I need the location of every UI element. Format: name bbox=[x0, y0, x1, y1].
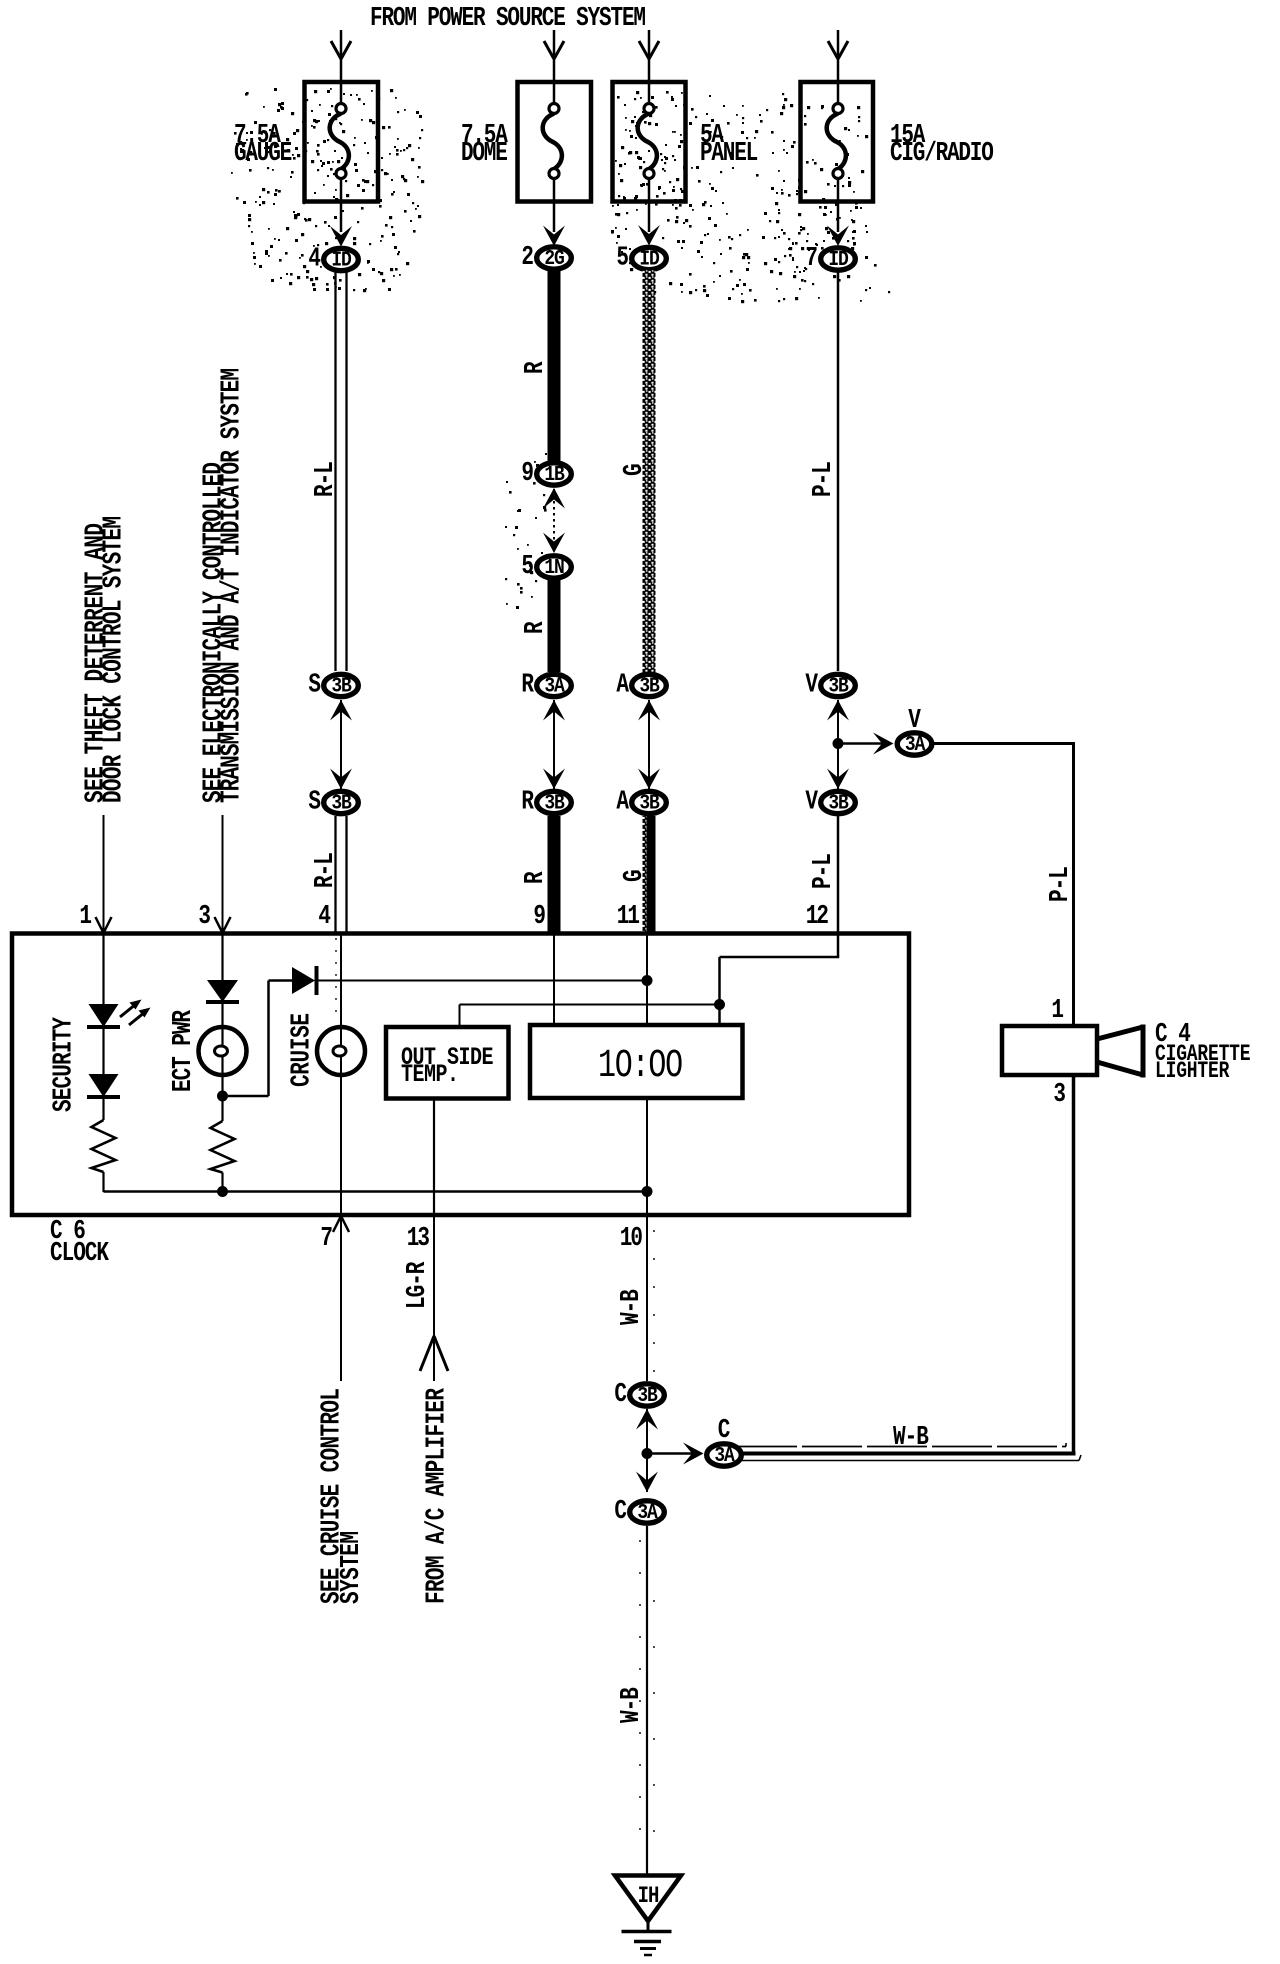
connector R 3B col2 bbox=[521, 787, 571, 817]
pin 4 label bbox=[318, 902, 331, 932]
label R upper bbox=[521, 361, 551, 374]
svg-text:CRUISE: CRUISE bbox=[287, 1013, 317, 1087]
resistor ECT R2 bbox=[211, 1121, 235, 1173]
diode security D2 bbox=[87, 1074, 120, 1097]
pin 3 label lighter bbox=[1053, 1080, 1066, 1110]
svg-text:R: R bbox=[521, 871, 551, 884]
pin 11 label bbox=[617, 902, 640, 932]
label C above 3A bbox=[718, 1416, 731, 1446]
svg-text:5: 5 bbox=[521, 552, 533, 582]
wire branch to C 3A bbox=[647, 1443, 704, 1465]
svg-text:3B: 3B bbox=[639, 790, 659, 815]
wire R thick middle bbox=[548, 580, 561, 672]
label 7.5A DOME bbox=[461, 121, 508, 169]
wire feed to fuse DOME bbox=[544, 30, 564, 82]
connector 7 1D bbox=[805, 244, 855, 274]
connector C 3A branch bbox=[707, 1442, 742, 1467]
connector 5 1D bbox=[616, 243, 666, 273]
ground IH triangle bbox=[615, 1876, 681, 1922]
svg-text:R-L: R-L bbox=[311, 853, 341, 888]
svg-text:4: 4 bbox=[308, 244, 320, 274]
label W-B pin10 bbox=[617, 1290, 647, 1325]
svg-text:R: R bbox=[521, 621, 551, 634]
junction arrows col2 bbox=[543, 700, 565, 789]
wire lamp to junction bbox=[221, 1075, 223, 1096]
svg-text:ID: ID bbox=[828, 246, 848, 271]
svg-text:IH: IH bbox=[638, 1885, 659, 1910]
connector V 3A branch bbox=[897, 731, 932, 756]
junction dot bottom bbox=[642, 1448, 653, 1459]
pin 3 label bbox=[198, 902, 211, 932]
junction dot col4 bbox=[833, 738, 844, 749]
label 15A CIG/RADIO bbox=[890, 121, 993, 169]
wire ECT junction to resistor bbox=[221, 1096, 223, 1121]
label C 4 CIGARETTE LIGHTER bbox=[1155, 1020, 1250, 1085]
connector C 3A lower bbox=[614, 1497, 664, 1527]
svg-text:PANEL: PANEL bbox=[700, 139, 758, 169]
wire branch to V 3A bbox=[838, 733, 894, 755]
label SEE ELECTRONICALLY CONTROLLED bbox=[199, 368, 247, 803]
svg-text:R-L: R-L bbox=[311, 462, 341, 497]
lamp CRUISE bbox=[317, 1027, 365, 1075]
node FROM POWER SOURCE SYSTEM label bbox=[370, 4, 646, 34]
svg-text:CLOCK: CLOCK bbox=[50, 1239, 110, 1269]
wire cruise diode to pin11 node bbox=[318, 980, 647, 982]
wire W-B to right rail bbox=[737, 1075, 1081, 1461]
junction arrows 1B to 1N bbox=[543, 488, 565, 553]
wire C3A to ground bbox=[640, 1526, 654, 1877]
diode ECT D3 bbox=[206, 980, 239, 1002]
svg-text:3A: 3A bbox=[637, 1499, 657, 1524]
svg-text:G: G bbox=[620, 463, 650, 476]
wire R2 to bus bbox=[221, 1173, 223, 1193]
svg-text:R: R bbox=[521, 361, 551, 374]
svg-text:9: 9 bbox=[533, 902, 546, 932]
svg-text:9: 9 bbox=[521, 459, 532, 489]
wire outside temp to pin13 bbox=[433, 1098, 435, 1214]
label R lower bbox=[521, 871, 551, 884]
svg-text:3B: 3B bbox=[639, 673, 659, 698]
cigarette lighter C4 body bbox=[1002, 1025, 1143, 1078]
fuse 5A PANEL bbox=[613, 82, 686, 202]
fuse 7.5A GAUGE bbox=[305, 82, 379, 202]
wire pin3 internal bbox=[221, 935, 223, 980]
svg-text:C: C bbox=[614, 1380, 626, 1410]
junction arrows col1 bbox=[330, 700, 352, 789]
svg-text:P-L: P-L bbox=[809, 462, 839, 497]
svg-text:SYSTEM: SYSTEM bbox=[337, 1531, 367, 1604]
connector S 3B upper col1 bbox=[308, 670, 358, 700]
svg-text:1B: 1B bbox=[544, 461, 564, 486]
connector S 3B lower col1 bbox=[308, 787, 358, 817]
wire internal ground bus bbox=[104, 1190, 648, 1193]
svg-text:13: 13 bbox=[407, 1224, 430, 1254]
svg-text:LIGHTER: LIGHTER bbox=[1155, 1059, 1230, 1085]
label ECT PWR bbox=[169, 1009, 199, 1092]
svg-text:3A: 3A bbox=[905, 731, 925, 756]
wire R1 to bus bbox=[102, 1172, 104, 1192]
label W-B lower bbox=[617, 1688, 647, 1723]
junction dot bus clock bbox=[642, 1186, 653, 1197]
clock display text 10:00 bbox=[598, 1043, 682, 1088]
svg-text:TRANSMISSION AND A/T INDICATOR: TRANSMISSION AND A/T INDICATOR SYSTEM bbox=[217, 368, 247, 803]
wire pin9 internal bbox=[553, 935, 555, 1025]
wire feed to fuse CIG/RADIO bbox=[828, 30, 848, 82]
connector A 3B upper col3 bbox=[616, 670, 666, 700]
resistor security R1 bbox=[92, 1120, 116, 1172]
wire fuse GAUGE to connector 1D bbox=[330, 202, 352, 247]
junction arrows col4 bbox=[827, 700, 849, 789]
wire P-L lower bbox=[837, 816, 840, 932]
connector A 3B lower col3 bbox=[616, 787, 666, 817]
wire G thick lower bbox=[643, 816, 656, 934]
pin 9 label bbox=[533, 902, 546, 932]
wire pin1 internal bbox=[102, 935, 104, 1004]
label P-L lower bbox=[809, 854, 839, 889]
wire G gray dithered upper bbox=[643, 270, 656, 674]
svg-text:DOME: DOME bbox=[461, 139, 507, 169]
svg-text:5: 5 bbox=[616, 243, 628, 273]
wire D2 to resistor bbox=[102, 1097, 104, 1120]
LED security D1 bbox=[87, 1004, 120, 1027]
wire feed to fuse GAUGE bbox=[331, 30, 351, 82]
junction dot bus ECT bbox=[217, 1186, 228, 1197]
label FROM A/C AMPLIFIER bbox=[422, 1387, 452, 1604]
label P-L upper bbox=[809, 462, 839, 497]
svg-text:3B: 3B bbox=[331, 673, 351, 698]
label CRUISE bbox=[287, 1013, 317, 1087]
clock unit box C6 bbox=[12, 934, 909, 1216]
connector C 3B bottom bbox=[614, 1380, 664, 1410]
wire pin12 internal bbox=[720, 935, 840, 1005]
svg-text:10: 10 bbox=[620, 1224, 643, 1254]
svg-text:3B: 3B bbox=[637, 1382, 657, 1407]
label SEE THEFT DETERRENT bbox=[81, 516, 129, 803]
svg-text:1N: 1N bbox=[544, 554, 564, 579]
junction dot ECT bbox=[217, 1091, 228, 1102]
wire R-L double line upper bbox=[336, 272, 347, 671]
connector 2 2G bbox=[521, 243, 571, 273]
wire clock display to bus bbox=[646, 1098, 648, 1192]
fuse 15A CIG/RADIO bbox=[801, 82, 874, 202]
label 7.5A GAUGE bbox=[234, 121, 292, 169]
lamp ECT PWR bbox=[199, 1027, 247, 1075]
connector 5 1N bbox=[521, 552, 571, 582]
svg-text:2: 2 bbox=[521, 243, 532, 273]
svg-text:W-B: W-B bbox=[617, 1688, 647, 1723]
svg-text:CIG/RADIO: CIG/RADIO bbox=[890, 139, 993, 169]
pin 1 label lighter bbox=[1051, 996, 1064, 1026]
wire R thick upper bbox=[548, 270, 561, 462]
wire V3A to right rail bbox=[933, 742, 1075, 1026]
junction arrows bottom bbox=[636, 1409, 658, 1492]
wire cruise lamp to pin7 bbox=[340, 1075, 342, 1214]
label R middle bbox=[521, 621, 551, 634]
wire R thick lower bbox=[548, 816, 561, 934]
svg-text:ECT PWR: ECT PWR bbox=[169, 1009, 199, 1092]
svg-text:P-L: P-L bbox=[1046, 867, 1076, 902]
wire D3 to lamp bbox=[221, 1002, 223, 1027]
wire fuse CIG to connector 1D bbox=[827, 202, 849, 247]
svg-text:ID: ID bbox=[639, 246, 659, 271]
svg-text:3B: 3B bbox=[544, 790, 564, 815]
fuse 7.5A DOME bbox=[518, 82, 592, 202]
svg-text:FROM POWER SOURCE SYSTEM: FROM POWER SOURCE SYSTEM bbox=[370, 4, 646, 34]
wire bus to pin10 bbox=[646, 1192, 648, 1215]
label R-L upper bbox=[311, 462, 341, 497]
wire pin3 from ECT system bbox=[215, 815, 231, 933]
svg-text:2G: 2G bbox=[544, 245, 564, 270]
svg-text:4: 4 bbox=[318, 902, 331, 932]
label W-B horizontal bbox=[893, 1423, 928, 1453]
svg-text:LG-R: LG-R bbox=[403, 1261, 433, 1309]
junction dot pin12 node bbox=[714, 999, 725, 1010]
wire pin7 to cruise control bbox=[340, 1217, 342, 1381]
label G lower bbox=[620, 869, 650, 882]
label V above 3A bbox=[908, 706, 921, 736]
connector V 3B upper col4 bbox=[805, 670, 855, 700]
svg-text:ID: ID bbox=[331, 247, 351, 272]
svg-text:C: C bbox=[614, 1497, 626, 1527]
label OUT SIDE TEMP bbox=[401, 1043, 493, 1089]
junction dot on pin11 wire bbox=[642, 975, 653, 986]
svg-text:1O:OO: 1O:OO bbox=[598, 1043, 682, 1088]
wire pin10 to C 3B bbox=[647, 1217, 654, 1381]
label SECURITY bbox=[49, 1016, 79, 1112]
wire pin11 internal bbox=[646, 935, 648, 1025]
label IH bbox=[638, 1885, 659, 1910]
label G upper bbox=[620, 463, 650, 476]
wire pin13 from AC amplifier bbox=[420, 1217, 448, 1381]
wire pin12 node to clock display bbox=[718, 1005, 721, 1026]
svg-text:FROM A/C AMPLIFIER: FROM A/C AMPLIFIER bbox=[422, 1387, 452, 1604]
svg-text:7: 7 bbox=[320, 1224, 333, 1254]
svg-text:G: G bbox=[620, 869, 650, 882]
pin 1 label bbox=[79, 902, 92, 932]
ground symbol bbox=[622, 1921, 672, 1955]
pin 7 label and arrow bbox=[320, 1216, 349, 1254]
svg-text:3B: 3B bbox=[828, 673, 848, 698]
svg-text:3A: 3A bbox=[714, 1442, 734, 1467]
svg-text:TEMP.: TEMP. bbox=[401, 1060, 459, 1089]
label C 6 CLOCK bbox=[50, 1217, 110, 1269]
junction arrows col3 bbox=[638, 700, 660, 789]
svg-text:S: S bbox=[308, 787, 320, 817]
svg-text:3: 3 bbox=[198, 902, 211, 932]
svg-text:GAUGE: GAUGE bbox=[234, 139, 292, 169]
svg-text:7: 7 bbox=[805, 244, 816, 274]
svg-text:3B: 3B bbox=[828, 790, 848, 815]
svg-text:11: 11 bbox=[617, 902, 640, 932]
svg-text:P-L: P-L bbox=[809, 854, 839, 889]
svg-text:12: 12 bbox=[806, 902, 828, 932]
wire D1 to D2 bbox=[102, 1027, 104, 1074]
wire ECT junction to cruise diode bbox=[223, 981, 293, 1097]
pin 12 label bbox=[806, 902, 828, 932]
label SEE CRUISE CONTROL bbox=[317, 1388, 367, 1604]
pin 13 label bbox=[407, 1224, 430, 1254]
wire pin4 internal bbox=[336, 935, 341, 1027]
svg-text:1: 1 bbox=[79, 902, 92, 932]
svg-text:3A: 3A bbox=[544, 673, 564, 698]
connector R 3A col2 bbox=[521, 670, 571, 700]
svg-text:W-B: W-B bbox=[893, 1423, 928, 1453]
wire feed to fuse PANEL bbox=[639, 30, 659, 82]
clock display box bbox=[530, 1025, 743, 1098]
svg-text:DOOR LOCK CONTROL SYSTEM: DOOR LOCK CONTROL SYSTEM bbox=[99, 516, 129, 803]
wire outside temp to pin12 node bbox=[460, 1005, 720, 1028]
svg-text:3: 3 bbox=[1053, 1080, 1066, 1110]
svg-text:SECURITY: SECURITY bbox=[49, 1016, 79, 1112]
wire fuse PANEL to connector 1D bbox=[638, 202, 660, 246]
wire pin1 from theft deterrent bbox=[96, 815, 112, 933]
wire P-L upper bbox=[837, 272, 840, 671]
connector 4 1D bbox=[308, 244, 358, 274]
connector 9 1B bbox=[521, 459, 571, 489]
label LG-R bbox=[403, 1261, 433, 1309]
diode cruise D4 bbox=[292, 966, 317, 995]
svg-text:1: 1 bbox=[1051, 996, 1064, 1026]
wire fuse DOME to connector 2G bbox=[543, 202, 565, 247]
svg-text:3B: 3B bbox=[331, 790, 351, 815]
LED emission arrows bbox=[120, 1000, 151, 1026]
connector V 3B lower col4 bbox=[805, 787, 855, 817]
label P-L right rail bbox=[1046, 867, 1076, 902]
label 5A PANEL bbox=[700, 121, 758, 169]
label R-L lower bbox=[311, 853, 341, 888]
wire R-L double line lower bbox=[336, 816, 347, 932]
box OUT SIDE TEMP bbox=[386, 1027, 509, 1099]
svg-text:W-B: W-B bbox=[617, 1290, 647, 1325]
pin 10 label bbox=[620, 1224, 643, 1254]
svg-text:S: S bbox=[308, 670, 320, 700]
